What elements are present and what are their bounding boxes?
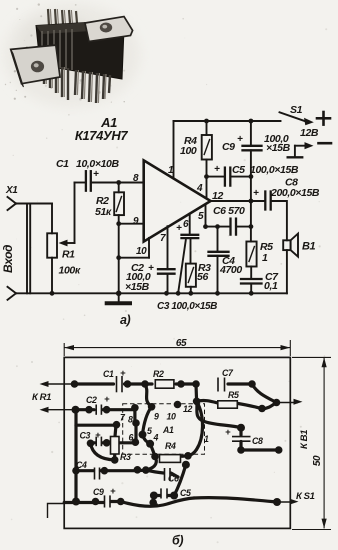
svg-text:10: 10: [167, 412, 176, 422]
svg-text:К R1: К R1: [32, 392, 51, 403]
svg-text:200,0×15В: 200,0×15В: [270, 187, 320, 199]
svg-text:1: 1: [204, 434, 209, 444]
svg-text:8: 8: [128, 415, 133, 425]
svg-text:К S1: К S1: [296, 491, 315, 502]
svg-text:12В: 12В: [300, 127, 319, 139]
svg-text:56: 56: [197, 271, 208, 283]
svg-text:а): а): [120, 313, 131, 327]
svg-text:0,1: 0,1: [264, 280, 278, 292]
svg-text:6: 6: [129, 433, 134, 443]
svg-text:8: 8: [133, 173, 139, 184]
svg-text:С6: С6: [168, 474, 179, 484]
svg-text:5: 5: [198, 211, 204, 222]
svg-text:С3 100,0×15В: С3 100,0×15В: [157, 301, 217, 312]
svg-text:С1: С1: [56, 158, 69, 170]
svg-text:С8: С8: [252, 436, 263, 446]
svg-text:4: 4: [153, 433, 159, 443]
svg-text:×15В: ×15В: [266, 142, 291, 154]
svg-text:С6 570: С6 570: [213, 205, 245, 217]
svg-text:R1: R1: [62, 249, 75, 261]
svg-text:С3: С3: [80, 431, 91, 441]
svg-text:А1: А1: [162, 425, 174, 435]
svg-text:+: +: [95, 430, 101, 441]
svg-text:5: 5: [147, 426, 152, 436]
svg-text:С7: С7: [222, 368, 234, 378]
svg-text:+: +: [176, 223, 182, 234]
svg-text:+: +: [120, 368, 126, 379]
svg-text:Вход: Вход: [1, 245, 15, 273]
svg-text:С4: С4: [76, 460, 87, 470]
svg-text:9: 9: [154, 412, 159, 422]
svg-text:51к: 51к: [95, 206, 112, 218]
svg-text:С9: С9: [93, 487, 104, 497]
svg-text:+: +: [237, 134, 243, 145]
svg-text:×15В: ×15В: [125, 281, 150, 293]
svg-text:10: 10: [136, 246, 147, 257]
svg-text:R2: R2: [153, 369, 164, 379]
svg-text:+: +: [153, 499, 159, 510]
svg-text:+: +: [225, 427, 231, 438]
svg-text:К В1: К В1: [299, 430, 310, 449]
svg-text:1: 1: [262, 252, 268, 264]
svg-text:+: +: [214, 164, 220, 175]
svg-text:+: +: [104, 394, 110, 405]
svg-text:9: 9: [133, 216, 139, 227]
svg-text:50: 50: [312, 455, 323, 466]
svg-text:4: 4: [196, 183, 203, 194]
svg-text:С5: С5: [232, 164, 245, 176]
svg-text:100,0×15В: 100,0×15В: [250, 164, 299, 176]
svg-text:S1: S1: [290, 104, 303, 116]
svg-text:6: 6: [183, 219, 189, 230]
svg-text:В1: В1: [302, 241, 316, 253]
svg-text:65: 65: [176, 338, 187, 349]
svg-text:К174УН7: К174УН7: [75, 128, 128, 143]
svg-text:Х1: Х1: [5, 185, 18, 196]
svg-text:С2: С2: [86, 395, 97, 405]
svg-text:С9: С9: [222, 141, 235, 153]
svg-text:+: +: [253, 188, 259, 199]
svg-text:12: 12: [212, 190, 223, 202]
svg-text:1: 1: [168, 165, 174, 176]
svg-text:R5: R5: [228, 390, 239, 400]
svg-text:R3: R3: [120, 452, 131, 462]
svg-text:R4: R4: [165, 441, 176, 451]
svg-text:С1: С1: [103, 369, 114, 379]
svg-text:12: 12: [183, 404, 192, 414]
svg-text:100: 100: [180, 145, 197, 157]
svg-text:100к: 100к: [59, 265, 81, 277]
svg-text:4700: 4700: [219, 264, 242, 276]
svg-text:С5: С5: [180, 488, 191, 498]
svg-text:+: +: [93, 169, 99, 180]
svg-text:7: 7: [160, 233, 166, 244]
svg-text:+: +: [110, 486, 116, 497]
svg-text:б): б): [172, 534, 183, 548]
